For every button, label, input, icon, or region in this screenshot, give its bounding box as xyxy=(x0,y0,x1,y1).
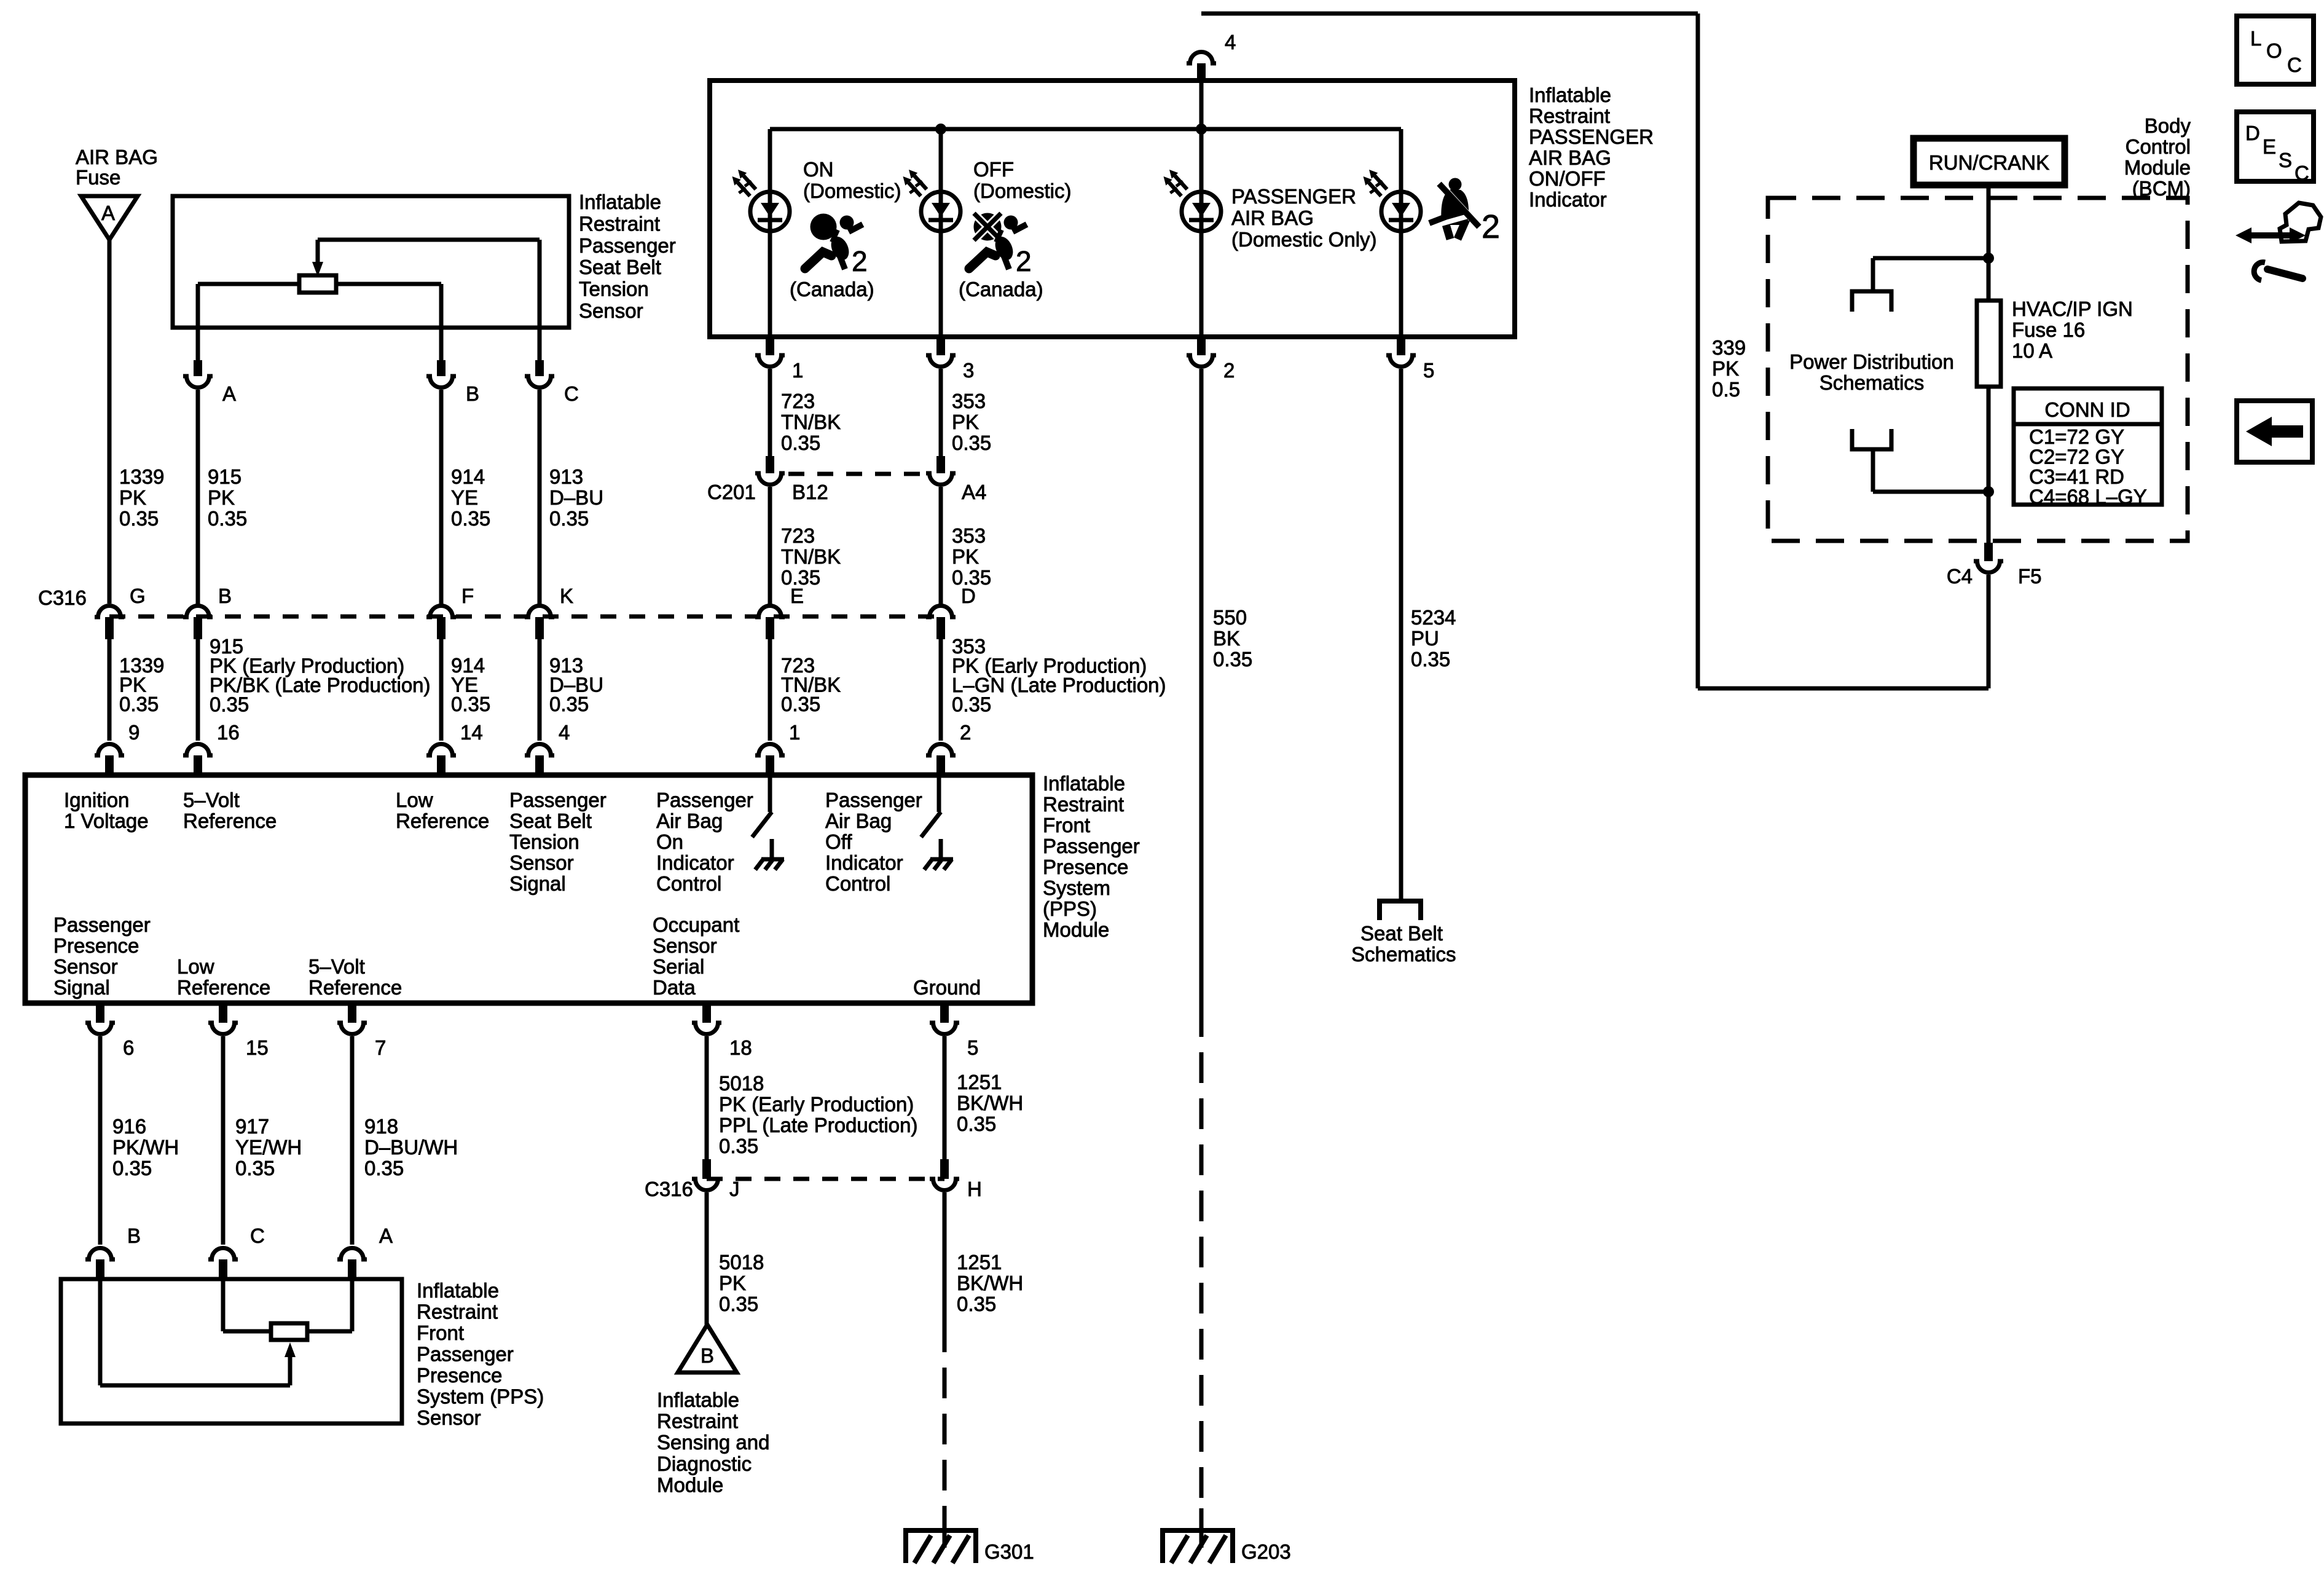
svg-text:A: A xyxy=(222,382,236,405)
svg-text:0.35: 0.35 xyxy=(119,507,159,530)
svg-text:B: B xyxy=(701,1344,714,1367)
svg-text:Indicator: Indicator xyxy=(825,851,903,874)
svg-text:Sensor: Sensor xyxy=(509,851,574,874)
svg-text:Reference: Reference xyxy=(308,976,402,999)
svg-text:B: B xyxy=(466,382,479,405)
svg-text:Ignition: Ignition xyxy=(64,789,129,811)
svg-text:Serial: Serial xyxy=(653,955,704,978)
svg-text:Control: Control xyxy=(825,872,890,895)
svg-text:Tension: Tension xyxy=(579,278,649,301)
svg-text:Air Bag: Air Bag xyxy=(656,809,723,832)
svg-text:16: 16 xyxy=(217,721,240,744)
svg-text:PK (Early Production): PK (Early Production) xyxy=(719,1093,914,1116)
svg-text:0.35: 0.35 xyxy=(781,693,820,715)
svg-text:D: D xyxy=(2245,122,2260,144)
svg-text:2: 2 xyxy=(960,721,971,744)
svg-text:TN/BK: TN/BK xyxy=(781,411,841,433)
svg-text:PK/WH: PK/WH xyxy=(112,1136,179,1159)
svg-text:18: 18 xyxy=(729,1036,752,1059)
svg-text:Inflatable: Inflatable xyxy=(657,1388,739,1411)
svg-text:0.35: 0.35 xyxy=(549,693,589,715)
svg-text:Restraint: Restraint xyxy=(1043,793,1124,816)
svg-text:0.35: 0.35 xyxy=(719,1135,758,1157)
svg-text:0.35: 0.35 xyxy=(1213,648,1252,671)
svg-text:E: E xyxy=(2263,135,2276,158)
svg-text:B12: B12 xyxy=(792,481,828,503)
svg-text:PPL (Late Production): PPL (Late Production) xyxy=(719,1114,917,1136)
svg-text:Indicator: Indicator xyxy=(656,851,734,874)
svg-text:C: C xyxy=(250,1224,265,1247)
svg-text:723: 723 xyxy=(781,524,815,547)
svg-text:O: O xyxy=(2266,39,2282,62)
svg-text:PASSENGER: PASSENGER xyxy=(1231,185,1356,208)
svg-text:K: K xyxy=(560,585,573,607)
svg-text:Seat Belt: Seat Belt xyxy=(579,256,661,278)
svg-text:Passenger: Passenger xyxy=(1043,835,1140,857)
svg-text:2: 2 xyxy=(1482,208,1500,245)
svg-text:Passenger: Passenger xyxy=(825,789,922,811)
svg-text:4: 4 xyxy=(1225,31,1236,53)
svg-text:C4: C4 xyxy=(1947,565,1973,588)
svg-text:Passenger: Passenger xyxy=(53,913,151,936)
svg-text:0.35: 0.35 xyxy=(957,1112,996,1135)
svg-text:0.35: 0.35 xyxy=(364,1157,404,1179)
svg-text:914: 914 xyxy=(451,465,485,488)
svg-text:Restraint: Restraint xyxy=(579,212,660,235)
svg-text:Sensor: Sensor xyxy=(579,299,643,322)
svg-text:Control: Control xyxy=(2126,135,2191,158)
svg-text:Schematics: Schematics xyxy=(1351,943,1456,966)
svg-text:353: 353 xyxy=(952,524,986,547)
svg-text:C4=68 L–GY: C4=68 L–GY xyxy=(2029,486,2147,508)
svg-text:Passenger: Passenger xyxy=(417,1343,514,1366)
svg-text:YE: YE xyxy=(451,486,478,509)
svg-text:Module: Module xyxy=(1043,918,1109,941)
svg-text:915: 915 xyxy=(208,465,241,488)
svg-text:Fuse: Fuse xyxy=(76,166,120,189)
svg-text:339: 339 xyxy=(1712,336,1746,359)
svg-text:0.35: 0.35 xyxy=(952,566,991,589)
svg-text:Restraint: Restraint xyxy=(417,1301,498,1323)
svg-text:Diagnostic: Diagnostic xyxy=(657,1452,752,1475)
svg-text:(Canada): (Canada) xyxy=(959,278,1043,301)
svg-text:D–BU: D–BU xyxy=(549,486,603,509)
svg-text:B: B xyxy=(218,585,232,607)
svg-text:PK: PK xyxy=(208,486,235,509)
svg-text:5234: 5234 xyxy=(1411,606,1456,629)
svg-text:ON/OFF: ON/OFF xyxy=(1529,167,1606,190)
svg-text:Reference: Reference xyxy=(396,809,489,832)
svg-text:Presence: Presence xyxy=(417,1364,502,1387)
svg-text:2: 2 xyxy=(852,245,868,277)
svg-text:0.35: 0.35 xyxy=(451,693,490,715)
svg-text:Control: Control xyxy=(656,872,721,895)
svg-text:PK: PK xyxy=(719,1272,746,1294)
svg-text:Occupant: Occupant xyxy=(653,913,739,936)
svg-text:C1=72 GY: C1=72 GY xyxy=(2029,425,2124,448)
svg-text:5–Volt: 5–Volt xyxy=(308,955,365,978)
svg-text:B: B xyxy=(127,1224,141,1247)
svg-text:1: 1 xyxy=(792,359,803,382)
svg-text:PK: PK xyxy=(119,486,146,509)
svg-text:(Canada): (Canada) xyxy=(790,278,874,301)
svg-text:Sensing and: Sensing and xyxy=(657,1431,769,1454)
svg-text:BK/WH: BK/WH xyxy=(957,1092,1023,1114)
svg-text:Fuse 16: Fuse 16 xyxy=(2012,318,2085,341)
svg-text:0.35: 0.35 xyxy=(957,1293,996,1315)
svg-text:CONN ID: CONN ID xyxy=(2044,398,2130,421)
svg-text:C201: C201 xyxy=(707,481,756,503)
svg-text:Sensor: Sensor xyxy=(653,934,717,957)
svg-text:918: 918 xyxy=(364,1115,398,1138)
svg-text:2: 2 xyxy=(1016,245,1032,277)
svg-text:Signal: Signal xyxy=(53,976,110,999)
svg-text:0.35: 0.35 xyxy=(235,1157,275,1179)
svg-text:C3=41 RD: C3=41 RD xyxy=(2029,465,2124,488)
svg-text:5: 5 xyxy=(967,1036,978,1059)
svg-text:AIR BAG: AIR BAG xyxy=(1231,207,1314,229)
svg-text:(Domestic): (Domestic) xyxy=(973,179,1072,202)
svg-text:917: 917 xyxy=(235,1115,269,1138)
svg-text:Seat Belt: Seat Belt xyxy=(509,809,592,832)
svg-text:0.35: 0.35 xyxy=(451,507,490,530)
svg-text:Power Distribution: Power Distribution xyxy=(1789,350,1954,373)
svg-text:YE/WH: YE/WH xyxy=(235,1136,302,1159)
svg-text:Passenger: Passenger xyxy=(509,789,607,811)
svg-text:Data: Data xyxy=(653,976,696,999)
svg-text:J: J xyxy=(729,1178,740,1200)
svg-text:ON: ON xyxy=(803,158,834,181)
svg-text:5–Volt: 5–Volt xyxy=(183,789,240,811)
svg-text:On: On xyxy=(656,830,683,853)
svg-text:0.5: 0.5 xyxy=(1712,378,1740,401)
svg-text:Off: Off xyxy=(825,830,852,853)
svg-text:0.35: 0.35 xyxy=(719,1293,758,1315)
svg-text:Tension: Tension xyxy=(509,830,579,853)
svg-text:D–BU/WH: D–BU/WH xyxy=(364,1136,458,1159)
svg-text:0.35: 0.35 xyxy=(208,507,247,530)
svg-text:PASSENGER: PASSENGER xyxy=(1529,125,1654,148)
svg-text:550: 550 xyxy=(1213,606,1247,629)
svg-text:RUN/CRANK: RUN/CRANK xyxy=(1929,151,2049,174)
svg-text:C2=72 GY: C2=72 GY xyxy=(2029,446,2124,468)
svg-text:Inflatable: Inflatable xyxy=(1529,84,1611,106)
svg-text:4: 4 xyxy=(559,721,570,744)
svg-text:A: A xyxy=(101,202,115,224)
svg-text:0.35: 0.35 xyxy=(781,431,820,454)
svg-text:5018: 5018 xyxy=(719,1072,764,1095)
svg-text:Air Bag: Air Bag xyxy=(825,809,892,832)
svg-text:5018: 5018 xyxy=(719,1251,764,1274)
svg-text:Inflatable: Inflatable xyxy=(1043,772,1125,795)
svg-text:1339: 1339 xyxy=(119,465,164,488)
svg-text:BK/WH: BK/WH xyxy=(957,1272,1023,1294)
svg-text:1 Voltage: 1 Voltage xyxy=(64,809,149,832)
svg-text:Restraint: Restraint xyxy=(657,1410,738,1433)
svg-text:10 A: 10 A xyxy=(2012,339,2052,362)
svg-text:TN/BK: TN/BK xyxy=(781,545,841,568)
svg-text:L: L xyxy=(2250,27,2261,50)
svg-text:Module: Module xyxy=(2124,156,2191,179)
svg-text:Sensor: Sensor xyxy=(53,955,118,978)
svg-text:Front: Front xyxy=(417,1321,464,1344)
svg-text:1251: 1251 xyxy=(957,1071,1002,1093)
svg-text:Inflatable: Inflatable xyxy=(579,191,661,213)
svg-text:PK: PK xyxy=(952,411,979,433)
svg-text:C316: C316 xyxy=(645,1178,693,1200)
svg-text:C: C xyxy=(2295,162,2309,184)
svg-text:7: 7 xyxy=(375,1036,386,1059)
svg-text:15: 15 xyxy=(246,1036,269,1059)
svg-text:F5: F5 xyxy=(2018,565,2042,588)
svg-text:AIR BAG: AIR BAG xyxy=(76,146,158,168)
svg-text:A: A xyxy=(379,1224,393,1247)
svg-text:2: 2 xyxy=(1223,359,1235,382)
svg-text:0.35: 0.35 xyxy=(1411,648,1450,671)
svg-text:Low: Low xyxy=(177,955,214,978)
svg-text:Presence: Presence xyxy=(1043,856,1128,878)
svg-text:C: C xyxy=(564,382,579,405)
svg-text:Seat Belt: Seat Belt xyxy=(1360,922,1443,945)
svg-text:PU: PU xyxy=(1411,627,1439,650)
svg-text:0.35: 0.35 xyxy=(119,693,159,715)
svg-text:G: G xyxy=(130,585,146,607)
svg-text:BK: BK xyxy=(1213,627,1240,650)
svg-text:Inflatable: Inflatable xyxy=(417,1279,499,1302)
svg-text:G301: G301 xyxy=(984,1540,1034,1563)
svg-text:1: 1 xyxy=(789,721,800,744)
svg-text:6: 6 xyxy=(123,1036,134,1059)
svg-text:F: F xyxy=(461,585,474,607)
svg-text:353: 353 xyxy=(952,390,986,412)
svg-text:Front: Front xyxy=(1043,814,1090,837)
svg-text:Body: Body xyxy=(2145,114,2191,137)
svg-text:A4: A4 xyxy=(962,481,986,503)
svg-text:PK: PK xyxy=(1712,357,1739,380)
svg-text:0.35: 0.35 xyxy=(210,693,249,716)
svg-text:(Domestic): (Domestic) xyxy=(803,179,901,202)
svg-text:Reference: Reference xyxy=(183,809,277,832)
svg-text:Reference: Reference xyxy=(177,976,270,999)
svg-text:Module: Module xyxy=(657,1473,723,1496)
svg-text:(Domestic Only): (Domestic Only) xyxy=(1231,228,1377,251)
svg-text:AIR BAG: AIR BAG xyxy=(1529,146,1611,169)
svg-text:723: 723 xyxy=(781,390,815,412)
svg-text:3: 3 xyxy=(963,359,974,382)
svg-text:14: 14 xyxy=(460,721,483,744)
svg-text:PK: PK xyxy=(952,545,979,568)
svg-text:0.35: 0.35 xyxy=(781,566,820,589)
svg-text:0.35: 0.35 xyxy=(952,431,991,454)
svg-text:Sensor: Sensor xyxy=(417,1406,481,1429)
svg-text:Low: Low xyxy=(396,789,433,811)
svg-text:0.35: 0.35 xyxy=(549,507,589,530)
svg-text:1251: 1251 xyxy=(957,1251,1002,1274)
svg-text:C316: C316 xyxy=(38,586,87,609)
svg-text:Signal: Signal xyxy=(509,872,566,895)
svg-text:Indicator: Indicator xyxy=(1529,188,1607,211)
svg-text:5: 5 xyxy=(1423,359,1434,382)
svg-text:0.35: 0.35 xyxy=(112,1157,152,1179)
svg-text:913: 913 xyxy=(549,465,583,488)
svg-text:0.35: 0.35 xyxy=(952,693,991,716)
svg-text:C: C xyxy=(2287,53,2302,76)
svg-text:System: System xyxy=(1043,876,1110,899)
svg-text:H: H xyxy=(967,1178,982,1200)
svg-text:System (PPS): System (PPS) xyxy=(417,1385,544,1408)
svg-text:Presence: Presence xyxy=(53,934,139,957)
svg-text:(PPS): (PPS) xyxy=(1043,897,1097,920)
svg-text:9: 9 xyxy=(128,721,139,744)
svg-text:Passenger: Passenger xyxy=(656,789,753,811)
svg-text:Passenger: Passenger xyxy=(579,234,676,257)
svg-text:Restraint: Restraint xyxy=(1529,104,1610,127)
svg-text:HVAC/IP IGN: HVAC/IP IGN xyxy=(2012,297,2133,320)
svg-text:S: S xyxy=(2279,149,2292,171)
svg-text:G203: G203 xyxy=(1241,1540,1291,1563)
svg-text:Schematics: Schematics xyxy=(1820,371,1925,394)
svg-text:Ground: Ground xyxy=(913,976,981,999)
svg-text:916: 916 xyxy=(112,1115,146,1138)
svg-text:OFF: OFF xyxy=(973,158,1014,181)
